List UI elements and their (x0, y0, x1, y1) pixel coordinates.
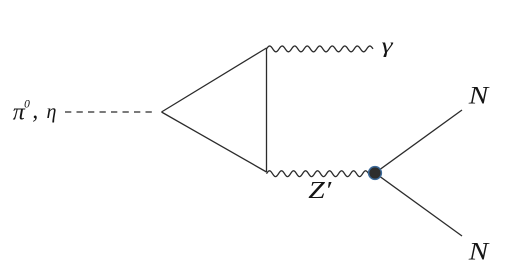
svg-text:N: N (468, 83, 490, 110)
svg-text:Z′: Z′ (308, 178, 332, 204)
svg-text:,: , (32, 98, 38, 124)
svg-text:0: 0 (24, 99, 30, 111)
svg-text:η: η (47, 101, 57, 123)
svg-text:γ: γ (382, 32, 395, 57)
svg-text:N: N (468, 239, 490, 266)
